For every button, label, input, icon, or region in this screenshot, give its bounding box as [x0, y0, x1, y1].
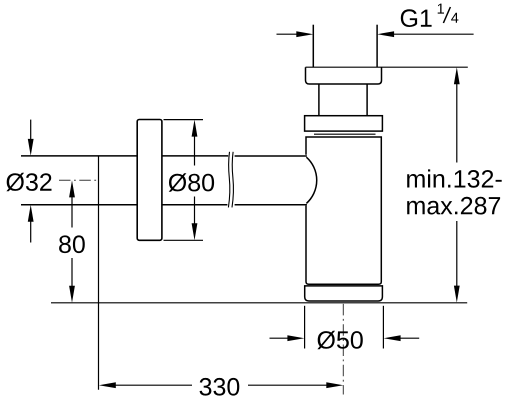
- pipe top line (rosette to break): [162, 155, 228, 157]
- wall pipe bottom line (left of rosette): [21, 204, 137, 206]
- label min.132-max.287: [407, 169, 502, 214]
- label G1 1/4: [401, 4, 459, 27]
- wall rosette flange: [137, 120, 162, 241]
- label 80: [59, 235, 85, 253]
- inlet pipe wall right: [376, 25, 378, 68]
- trap body cylinder: [306, 137, 381, 284]
- dimension G1 1/4 right arrow: [377, 31, 474, 37]
- pipe centerline (dash-dot): [59, 179, 98, 181]
- bottom cup (rounded bottom corners): [305, 286, 383, 301]
- label Ø32: [6, 173, 51, 192]
- label Ø50: [317, 331, 362, 350]
- pipe top line (break to body): [235, 155, 307, 157]
- Ø50 right extension line: [382, 306, 384, 349]
- pipe bottom line (rosette to break): [162, 204, 228, 206]
- dimension Ø32 bottom arrow: [28, 205, 34, 243]
- Ø80 top extension line: [164, 119, 204, 121]
- rim line under top cap: [314, 133, 376, 135]
- pipe bottom line (break to body): [235, 204, 307, 206]
- bottom long extension line: [51, 302, 467, 304]
- dimension G1 1/4 left arrow: [277, 31, 314, 37]
- Ø80 bottom extension line: [164, 239, 204, 241]
- pipe break line left: [228, 152, 229, 208]
- dimension Ø50 right arrow: [384, 335, 420, 341]
- wall pipe top line (left of rosette): [21, 155, 137, 157]
- dimension min.132-max.287 vertical line with arrows: [454, 67, 460, 302]
- inlet dome inside body: [306, 157, 316, 203]
- top flange of trap (rounded bottom corners): [306, 66, 468, 68]
- trap vertical centerline (dash-dot): [342, 304, 344, 395]
- dimension Ø32 top arrow: [28, 120, 34, 156]
- pipe break line right: [232, 152, 233, 208]
- neck between flange and body cap: [318, 84, 320, 116]
- body top cap (compression nut): [305, 116, 383, 131]
- dimension 80 vertical line with arrows: [69, 180, 75, 302]
- label Ø80: [169, 173, 214, 192]
- Ø50 left extension line: [304, 306, 306, 349]
- label 330: [200, 378, 240, 396]
- dimension 330 line with arrows: [99, 382, 343, 388]
- dimension Ø50 left arrow: [270, 335, 305, 341]
- inlet pipe wall left (G1 1/4 thread), above top flange: [312, 25, 314, 68]
- 330 left extension line: [98, 156, 100, 390]
- dimension Ø80 vertical line with arrows: [192, 120, 198, 241]
